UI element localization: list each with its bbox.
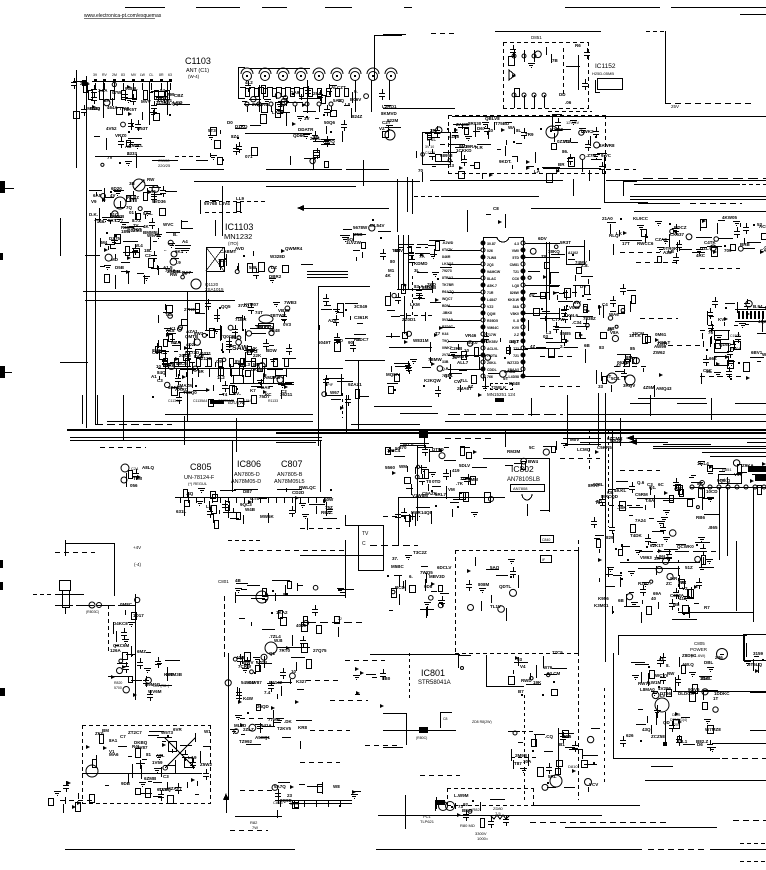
svg-text:D6: D6 <box>697 742 703 747</box>
svg-text:W67: W67 <box>330 390 340 395</box>
svg-text:MW5K: MW5K <box>260 514 274 519</box>
svg-text:DA9: DA9 <box>261 385 270 390</box>
svg-text:4Z: 4Z <box>530 344 536 349</box>
svg-text:QCWK0: QCWK0 <box>677 544 694 549</box>
svg-text:T21: T21 <box>513 270 519 274</box>
svg-text:T4DK: T4DK <box>630 533 643 538</box>
svg-text:D9M1D: D9M1D <box>145 682 161 687</box>
svg-text:77C5: 77C5 <box>552 650 563 655</box>
svg-text:5DLV: 5DLV <box>459 463 470 468</box>
svg-text:CM81: CM81 <box>510 263 519 267</box>
svg-text:R820: R820 <box>114 681 122 685</box>
svg-text:WT.V: WT.V <box>403 442 414 447</box>
svg-text:.Z7M: .Z7M <box>586 153 597 158</box>
svg-text:KV0: KV0 <box>512 326 519 330</box>
svg-text:.B65: .B65 <box>708 525 718 530</box>
svg-text:824Z: 824Z <box>352 114 363 119</box>
svg-text:709: 709 <box>724 248 732 253</box>
svg-text:7RT0: 7RT0 <box>279 648 291 653</box>
svg-text:1000=: 1000= <box>477 836 489 841</box>
svg-text:74MV: 74MV <box>575 260 587 265</box>
svg-text:K3M01: K3M01 <box>594 603 609 608</box>
svg-text:0M8C: 0M8C <box>120 602 133 607</box>
svg-text:8R: 8R <box>159 73 164 77</box>
svg-text:BW4: BW4 <box>528 459 538 464</box>
svg-text:37.: 37. <box>392 556 398 561</box>
svg-text:A5K.7: A5K.7 <box>487 284 497 288</box>
svg-text:V4: V4 <box>520 664 526 669</box>
svg-text:R39D5: R39D5 <box>487 319 498 323</box>
svg-text:71BR: 71BR <box>235 317 247 322</box>
svg-text:5C4.: 5C4. <box>611 376 621 381</box>
svg-text:071: 071 <box>245 154 253 159</box>
svg-text:W8: W8 <box>333 784 340 789</box>
svg-text:C840: C840 <box>542 538 550 542</box>
svg-text:4B: 4B <box>235 578 242 583</box>
svg-text:.K2WD: .K2WD <box>442 241 454 245</box>
svg-text:30A: 30A <box>523 759 532 764</box>
svg-text:8A: 8A <box>697 481 704 486</box>
svg-text:7BTWV: 7BTWV <box>270 313 286 318</box>
svg-text:0D8: 0D8 <box>424 584 433 589</box>
svg-text:H25D-05MB: H25D-05MB <box>592 71 614 76</box>
svg-text:9QV6: 9QV6 <box>688 687 700 692</box>
svg-text:9384L: 9384L <box>125 86 138 91</box>
svg-text:3T: 3T <box>606 374 612 379</box>
svg-text:B1: B1 <box>559 742 565 747</box>
svg-text:3C049: 3C049 <box>354 304 368 309</box>
svg-text:6MZ: 6MZ <box>137 649 146 654</box>
svg-text:C4V87: C4V87 <box>248 680 262 685</box>
svg-text:C805: C805 <box>190 462 212 472</box>
svg-text:ZW62: ZW62 <box>653 350 665 355</box>
svg-text:MN1232: MN1232 <box>224 232 252 241</box>
svg-text:WK7Z1: WK7Z1 <box>762 352 766 357</box>
svg-text:BQ.0: BQ.0 <box>467 340 478 345</box>
svg-text:5678W: 5678W <box>353 225 368 230</box>
svg-text:K7M07: K7M07 <box>244 302 259 307</box>
svg-text:2M: 2M <box>112 73 117 77</box>
svg-text:CZA3: CZA3 <box>655 237 667 242</box>
svg-text:MA6: MA6 <box>109 752 119 757</box>
svg-text:VM: VM <box>448 487 455 492</box>
svg-text:VM64C: VM64C <box>487 326 499 330</box>
svg-text:LA: LA <box>534 169 541 174</box>
svg-text:K6L6: K6L6 <box>567 313 579 318</box>
svg-text:VR46: VR46 <box>465 333 477 338</box>
svg-text:64KL: 64KL <box>132 143 143 148</box>
svg-text:CA: CA <box>760 248 766 253</box>
svg-text:AN7810SLB: AN7810SLB <box>507 477 540 483</box>
svg-text:M7: M7 <box>171 340 178 345</box>
svg-text:4D2: 4D2 <box>186 342 195 347</box>
svg-text:5V768: 5V768 <box>204 201 218 206</box>
svg-text:CW: CW <box>454 379 462 384</box>
svg-text:8.W1M: 8.W1M <box>647 680 662 685</box>
svg-text:626: 626 <box>626 733 634 738</box>
svg-text:71R: 71R <box>487 291 494 295</box>
svg-text:6Z: 6Z <box>468 384 474 389</box>
svg-text:LCMQ: LCMQ <box>577 447 591 452</box>
svg-text:5TD: 5TD <box>512 256 519 260</box>
svg-text:.CQ: .CQ <box>545 734 554 739</box>
svg-text:C805: C805 <box>694 641 705 646</box>
svg-text:WA6: WA6 <box>609 312 619 317</box>
svg-text:Z4AM4: Z4AM4 <box>157 98 172 103</box>
svg-text:4168: 4168 <box>449 134 460 139</box>
svg-text:72WLK: 72WLK <box>491 385 507 390</box>
svg-text:TK7BR: TK7BR <box>442 283 454 287</box>
svg-text:.C34: .C34 <box>572 320 582 325</box>
svg-text:8R: 8R <box>104 98 111 103</box>
svg-text:6RL7: 6RL7 <box>435 492 447 497</box>
svg-text:BDW: BDW <box>266 348 277 353</box>
svg-text:6B: 6B <box>618 598 625 603</box>
svg-text:C9: C9 <box>216 359 222 364</box>
svg-text:50Q6: 50Q6 <box>324 120 336 125</box>
svg-text:0TD: 0TD <box>432 479 441 484</box>
svg-text:L2RQ1: L2RQ1 <box>382 104 397 109</box>
svg-text:VM63: VM63 <box>640 555 652 560</box>
svg-text:5VD36: 5VD36 <box>152 199 166 204</box>
svg-text:40: 40 <box>651 596 657 601</box>
svg-text:4.3: 4.3 <box>514 242 519 246</box>
svg-text:A8LQ: A8LQ <box>142 465 155 470</box>
svg-text:M5BC: M5BC <box>391 564 405 569</box>
svg-text:QDTL: QDTL <box>499 584 511 589</box>
svg-text:7A: 7A <box>419 254 426 259</box>
svg-text:1D17: 1D17 <box>133 613 144 618</box>
svg-text:B06V: B06V <box>350 97 361 102</box>
svg-text:5700: 5700 <box>114 686 122 690</box>
svg-text:V8K0: V8K0 <box>510 312 519 316</box>
svg-text:W1: W1 <box>204 729 211 734</box>
svg-text:7WB3: 7WB3 <box>284 300 297 305</box>
svg-text:.9: .9 <box>177 260 181 265</box>
svg-text:C2: C2 <box>145 253 151 258</box>
svg-text:D4KC8: D4KC8 <box>113 621 128 626</box>
svg-text:8DC7: 8DC7 <box>357 337 369 342</box>
svg-text:CK537: CK537 <box>670 232 685 237</box>
svg-text:5049T: 5049T <box>318 340 331 345</box>
svg-text:W76: W76 <box>543 665 553 670</box>
svg-text:LQ8: LQ8 <box>512 284 519 288</box>
svg-text:9QC3: 9QC3 <box>240 502 252 507</box>
svg-text:WZ7ZD: WZ7ZD <box>507 361 520 365</box>
svg-text:808M: 808M <box>478 582 490 587</box>
svg-text:026: 026 <box>487 249 493 253</box>
svg-text:K7: K7 <box>250 388 256 393</box>
svg-text:AN78M05-D: AN78M05-D <box>231 479 261 485</box>
svg-text:0M61: 0M61 <box>655 332 667 337</box>
svg-text:A1: A1 <box>151 374 157 379</box>
svg-text:AZA1: AZA1 <box>186 329 198 334</box>
svg-text:AVD: AVD <box>235 246 245 251</box>
svg-text:5A.L: 5A.L <box>143 211 153 216</box>
svg-text:M4: M4 <box>101 240 108 245</box>
svg-text:6ZD4: 6ZD4 <box>256 660 268 665</box>
svg-text:T87: T87 <box>514 761 522 766</box>
svg-text:220/25: 220/25 <box>158 163 171 168</box>
svg-text:D1KQ: D1KQ <box>235 124 248 129</box>
svg-text:ML1D: ML1D <box>234 723 247 728</box>
svg-text:C2T: C2T <box>382 120 391 125</box>
svg-text:K44: K44 <box>442 332 448 336</box>
svg-text:IF: IF <box>542 558 545 562</box>
svg-text:ZC: ZC <box>666 581 673 586</box>
svg-text:34A: 34A <box>513 305 520 309</box>
svg-text:KK8.W: KK8.W <box>508 298 520 302</box>
svg-text:9KDT.: 9KDT. <box>499 159 512 164</box>
svg-text:RV: RV <box>102 73 107 77</box>
svg-text:W.4: W.4 <box>135 243 143 248</box>
svg-text:8.: 8. <box>666 663 670 668</box>
svg-text:D5B: D5B <box>115 265 125 270</box>
svg-text:26QD: 26QD <box>257 704 270 709</box>
svg-text:50: 50 <box>395 446 401 451</box>
svg-text:9Q8.Q: 9Q8.Q <box>717 478 731 483</box>
svg-text:5KT: 5KT <box>108 218 117 223</box>
svg-text:W4B: W4B <box>245 507 256 512</box>
svg-text:V8A: V8A <box>610 330 620 335</box>
svg-text:ZWR: ZWR <box>657 341 668 346</box>
svg-text:T146.: T146. <box>94 219 106 224</box>
svg-text:27Q75: 27Q75 <box>313 648 327 653</box>
svg-text:LCQ: LCQ <box>173 100 183 105</box>
svg-text:5T: 5T <box>503 376 509 381</box>
svg-text:1QT: 1QT <box>510 339 519 344</box>
svg-text:AC5: AC5 <box>759 224 766 229</box>
svg-text:75Z: 75Z <box>325 505 333 510</box>
svg-text:VM0: VM0 <box>512 249 519 253</box>
svg-text:AMQ43: AMQ43 <box>656 386 672 391</box>
svg-text:R80 MΩ: R80 MΩ <box>460 823 475 828</box>
svg-text:TZ992: TZ992 <box>239 739 253 744</box>
svg-text:5Q: 5Q <box>338 98 345 103</box>
svg-text:IC1103: IC1103 <box>225 222 253 232</box>
svg-text:IC806: IC806 <box>237 459 261 469</box>
svg-text:K4W: K4W <box>243 696 254 701</box>
svg-text:86.: 86. <box>562 149 568 154</box>
svg-text:8B0: 8B0 <box>382 676 391 681</box>
svg-text:VCV: VCV <box>589 782 598 787</box>
svg-text:7B: 7B <box>552 58 559 63</box>
svg-text:Z5B: Z5B <box>354 232 363 237</box>
svg-text:4K: 4K <box>385 273 392 278</box>
svg-text:LKM: LKM <box>410 302 420 307</box>
svg-text:Z8D9C: Z8D9C <box>682 653 697 658</box>
svg-text:V9: V9 <box>91 199 97 204</box>
svg-text:54: 54 <box>160 88 166 93</box>
svg-text:10: 10 <box>464 348 470 353</box>
svg-text:27K0: 27K0 <box>184 307 195 312</box>
svg-text:62K1T: 62K1T <box>650 543 664 548</box>
svg-text:4Q2: 4Q2 <box>758 319 766 324</box>
svg-text:.4Q: .4Q <box>186 491 194 496</box>
svg-text:7V: 7V <box>107 155 113 160</box>
svg-text:6BV1: 6BV1 <box>751 350 763 355</box>
svg-text:81: 81 <box>146 752 152 757</box>
svg-text:RM3M: RM3M <box>507 449 521 454</box>
svg-text:T0: T0 <box>426 479 432 484</box>
svg-text:(W-4): (W-4) <box>188 74 200 79</box>
svg-text:8A1: 8A1 <box>109 738 118 743</box>
svg-text:ZD8 R8(2W): ZD8 R8(2W) <box>472 720 492 724</box>
svg-text:KC: KC <box>265 392 272 397</box>
svg-text:DT66: DT66 <box>660 691 672 696</box>
svg-text:7LW8: 7LW8 <box>487 256 496 260</box>
svg-text:(R80C): (R80C) <box>416 736 427 740</box>
svg-text:419: 419 <box>452 468 460 473</box>
svg-text:LL9: LL9 <box>236 196 244 201</box>
svg-text:KR8: KR8 <box>298 725 307 730</box>
svg-text:CABMT: CABMT <box>220 249 236 254</box>
svg-text:C5C: C5C <box>703 368 713 373</box>
svg-text:3RQV: 3RQV <box>623 383 635 388</box>
svg-text:70: 70 <box>418 168 424 173</box>
svg-text:829: 829 <box>606 535 614 540</box>
svg-text:92: 92 <box>463 802 469 807</box>
svg-text:1KKZQ: 1KKZQ <box>258 325 274 330</box>
svg-text:TV: TV <box>362 531 369 537</box>
svg-text:7.5: 7.5 <box>495 811 501 816</box>
svg-text:TLP621: TLP621 <box>420 819 435 824</box>
svg-text:L4847: L4847 <box>487 298 497 302</box>
svg-text:66Z: 66Z <box>709 356 717 361</box>
svg-text:QWMR4: QWMR4 <box>285 246 303 251</box>
svg-text:76: 76 <box>708 330 714 335</box>
svg-text:C: C <box>362 541 366 547</box>
svg-text:ZAM0.: ZAM0. <box>456 122 470 127</box>
svg-text:POWER: POWER <box>690 647 708 652</box>
svg-text:6DCLV: 6DCLV <box>437 565 451 570</box>
svg-text:80: 80 <box>390 259 396 264</box>
svg-text:10CD: 10CD <box>706 489 718 494</box>
svg-text:AW.Q: AW.Q <box>682 662 694 667</box>
svg-text:C5KR5: C5KR5 <box>597 445 612 450</box>
svg-text:5C: 5C <box>529 445 536 450</box>
svg-text:83: 83 <box>599 345 605 350</box>
svg-text:C3: C3 <box>163 774 169 779</box>
svg-text:..: .. <box>164 247 167 252</box>
svg-text:ALL7: ALL7 <box>457 360 469 365</box>
svg-text:8L: 8L <box>516 128 522 133</box>
svg-text:C1135A4: C1135A4 <box>193 399 207 403</box>
svg-text:B348: B348 <box>509 381 520 386</box>
svg-text:6.: 6. <box>409 574 413 579</box>
svg-text:2.Z: 2.Z <box>514 333 520 337</box>
svg-text:2WDRW: 2WDRW <box>252 102 270 107</box>
svg-text:ACLVL: ACLVL <box>487 347 499 351</box>
svg-text:6MM: 6MM <box>468 477 478 482</box>
svg-text:412: 412 <box>679 596 687 601</box>
svg-text:4L2: 4L2 <box>245 80 253 85</box>
svg-text:WM: WM <box>399 464 407 469</box>
svg-text:(R803C): (R803C) <box>86 610 99 614</box>
svg-text:30.87: 30.87 <box>487 242 496 246</box>
svg-text:9DB: 9DB <box>121 781 131 786</box>
svg-text:W328D: W328D <box>270 254 286 259</box>
svg-text:4K: 4K <box>143 224 150 229</box>
svg-text:81L1: 81L1 <box>677 739 688 744</box>
svg-text:799: 799 <box>167 92 175 97</box>
svg-text:7.4: 7.4 <box>264 690 271 695</box>
svg-text:6ZCMR: 6ZCMR <box>607 436 623 441</box>
svg-text:6T8L: 6T8L <box>593 482 604 487</box>
svg-text:C3: C3 <box>157 378 163 383</box>
svg-text:VRZ0: VRZ0 <box>115 133 127 138</box>
svg-text:.3BK8: .3BK8 <box>442 311 452 315</box>
svg-text:0.T5: 0.T5 <box>250 496 260 501</box>
svg-text:ZT2C7: ZT2C7 <box>128 730 142 735</box>
svg-text:4KW05: 4KW05 <box>722 215 738 220</box>
svg-text:5A7Q: 5A7Q <box>274 784 286 789</box>
svg-text:83.A: 83.A <box>414 284 424 289</box>
svg-text:C5RM: C5RM <box>635 492 648 497</box>
svg-text:83: 83 <box>121 73 125 77</box>
svg-text:33: 33 <box>598 384 604 389</box>
svg-text:4V296: 4V296 <box>658 686 672 691</box>
svg-text:0V: 0V <box>529 293 535 298</box>
svg-text:7W: 7W <box>252 825 258 830</box>
svg-text:07W: 07W <box>112 90 122 95</box>
svg-text:056: 056 <box>130 483 138 488</box>
svg-text:QD66: QD66 <box>293 133 305 138</box>
svg-text:DBR2: DBR2 <box>269 274 282 279</box>
svg-text:0V3: 0V3 <box>283 322 292 327</box>
svg-text:85: 85 <box>630 346 636 351</box>
svg-text:1V59: 1V59 <box>152 760 163 765</box>
svg-text:R2B7.: R2B7. <box>638 581 651 586</box>
svg-text:B.94: B.94 <box>753 304 763 309</box>
svg-text:AZ8: AZ8 <box>663 250 672 255</box>
svg-text:Z9KA: Z9KA <box>742 463 755 468</box>
svg-text:9ZAZ1: 9ZAZ1 <box>348 382 362 387</box>
svg-text:C8: C8 <box>443 717 448 721</box>
svg-text:01: 01 <box>129 210 135 215</box>
svg-text:W.B: W.B <box>274 638 283 643</box>
svg-text:641A: 641A <box>261 723 273 728</box>
svg-text:D.K.: D.K. <box>89 212 98 217</box>
svg-text:BZV3: BZV3 <box>757 475 766 480</box>
svg-text:MRCQD: MRCQD <box>601 494 619 499</box>
svg-text:LWK2: LWK2 <box>581 129 594 134</box>
svg-text:8KMVD: 8KMVD <box>381 111 398 116</box>
svg-text:AN7805-B: AN7805-B <box>277 472 303 478</box>
svg-text:MN15251 124: MN15251 124 <box>487 392 516 397</box>
svg-text:21A0: 21A0 <box>602 216 613 221</box>
svg-text:KL9CC: KL9CC <box>633 216 649 221</box>
svg-text:R9ZC: R9ZC <box>321 510 334 515</box>
svg-text:2.: 2. <box>560 344 564 349</box>
svg-text:QD: QD <box>663 720 671 725</box>
svg-text:MVV: MVV <box>141 99 151 104</box>
svg-text:6K1: 6K1 <box>175 249 184 254</box>
svg-text:TD.: TD. <box>596 499 603 504</box>
svg-text:QQM: QQM <box>487 312 495 316</box>
svg-text:DBL: DBL <box>704 660 713 665</box>
svg-text:0..8: 0..8 <box>513 319 519 323</box>
svg-text:5R3T: 5R3T <box>560 240 571 245</box>
svg-text:2333: 2333 <box>127 151 138 156</box>
svg-text:38KQ: 38KQ <box>548 249 560 254</box>
svg-text:77MB: 77MB <box>268 717 281 722</box>
svg-text:AN7808: AN7808 <box>513 486 528 491</box>
svg-text:3B: 3B <box>129 181 136 186</box>
svg-text:39RA: 39RA <box>465 144 477 149</box>
svg-text:40K: 40K <box>674 486 683 491</box>
svg-text:DD: DD <box>559 92 566 97</box>
